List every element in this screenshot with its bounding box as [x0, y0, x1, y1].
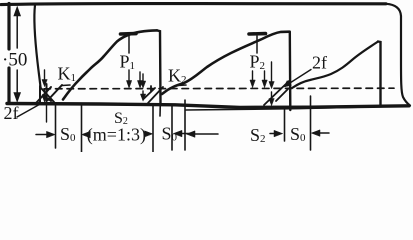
svg-text:·50: ·50	[2, 50, 27, 71]
water surface curve 2	[162, 32, 290, 94]
flume top line	[1, 3, 386, 4]
leader line 2f left	[17, 103, 42, 117]
tick under K2	[178, 84, 187, 87]
depth arrowhead bottom	[14, 93, 21, 103]
bed second line	[186, 107, 368, 110]
svg-text:2f: 2f	[312, 53, 327, 73]
dimension arrow at 173	[176, 133, 191, 135]
tick under K1	[62, 84, 70, 87]
arrow pair under P2	[253, 71, 265, 82]
water surface curve 1	[63, 30, 157, 99]
extension line S0 last right	[310, 96, 312, 150]
piezometer stem P2	[256, 36, 258, 53]
depth arrowhead top	[14, 7, 21, 17]
piezometer bar P1	[121, 32, 137, 36]
extension line S2 long left	[184, 100, 186, 150]
stacked arrows at sill 2	[142, 74, 144, 96]
channel bed	[7, 104, 409, 108]
piezometer bar P2	[249, 32, 266, 36]
dimension arrow S0-1 left	[36, 134, 50, 136]
dimension arrow S2 long left	[188, 133, 218, 135]
svg-text:2f: 2f	[4, 103, 19, 123]
dimension arrow S0 last right	[313, 132, 329, 134]
extension line S2-S0	[152, 106, 154, 152]
depth arrow stem .50	[16, 9, 18, 97]
extension line sill1 left	[46, 104, 48, 122]
right wall border	[386, 4, 410, 106]
drop wall 2	[289, 32, 292, 110]
drop wall 3	[378, 42, 381, 107]
dashed sill-crest line	[44, 87, 394, 90]
roughness sill 3	[264, 81, 289, 105]
water surface curve 3	[292, 42, 378, 89]
extension line S0-S2	[81, 105, 83, 152]
drop wall 1	[157, 30, 161, 104]
dimension arrow at 152	[146, 133, 149, 135]
dimension arrow at 81	[84, 134, 89, 136]
left wall	[7, 4, 10, 104]
tick below sill 2	[159, 104, 161, 116]
arrow pair under P1	[129, 70, 140, 82]
roughness sill 2	[144, 86, 164, 103]
leader line 2f right	[286, 70, 311, 86]
roughness sill 1	[36, 84, 62, 103]
stacked arrows at sill 3	[271, 62, 273, 99]
stacked arrows at sill 1	[44, 70, 46, 97]
extension line S0 mid right	[171, 106, 173, 150]
extension line sill1 right	[55, 103, 57, 148]
svg-text:(m=1:3): (m=1:3)	[87, 125, 146, 146]
extension line S2 long right	[284, 107, 286, 141]
dimension arrow S2 long right	[270, 133, 279, 135]
upstream drawdown curve	[34, 5, 40, 87]
piezometer stem P1	[128, 36, 130, 53]
